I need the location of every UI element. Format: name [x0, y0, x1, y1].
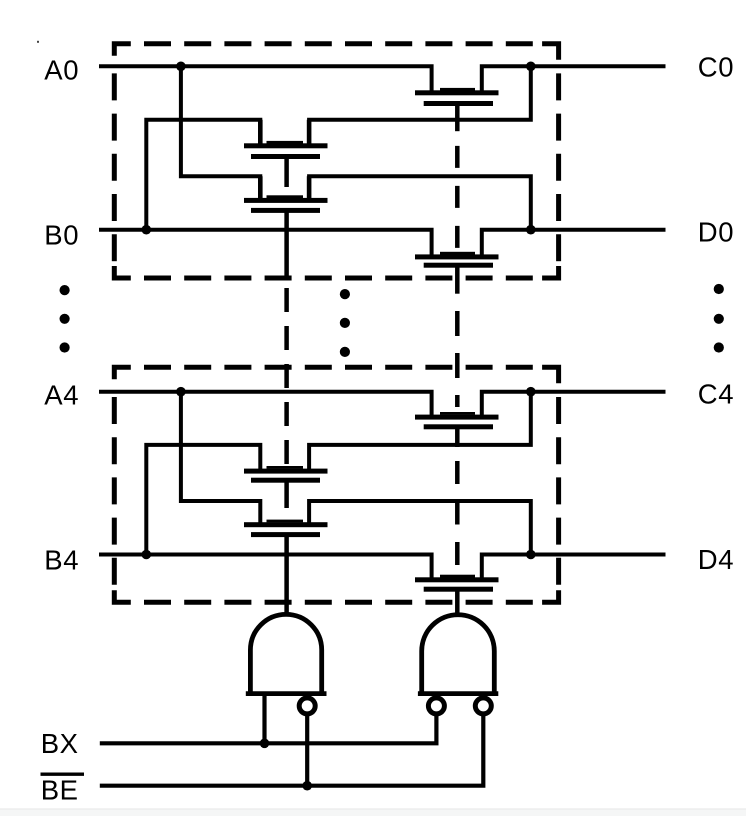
dashed box 1 (bit 0 cell) bottom edge	[131, 276, 542, 281]
gate line of Q6/Q7 and U1 output stub	[284, 480, 289, 614]
node BE junction	[302, 781, 312, 791]
wire C0 line	[482, 66, 666, 92]
svg-text:BE: BE	[41, 775, 79, 806]
svg-text:A4: A4	[44, 379, 79, 410]
inverting bubble U2 input A	[428, 698, 444, 714]
wire B0 line	[99, 230, 432, 256]
overline of BE	[41, 773, 85, 776]
svg-text:D0: D0	[698, 216, 734, 247]
inverting bubble U2 input B	[475, 698, 491, 714]
AND gate U1 (left, output drives cross control)	[246, 614, 327, 695]
gate line dashes Q5 to Q8	[455, 461, 460, 577]
transistor Q5 (A4-C4 pass)	[415, 412, 499, 429]
svg-text:BX: BX	[41, 728, 79, 759]
wire Q7 to D4 node (box 2)	[309, 501, 531, 555]
node BX junction	[260, 739, 270, 749]
bottom page strip	[0, 809, 746, 816]
dashed box 1 (bit 0 cell) top edge	[131, 41, 542, 46]
gate line of Q5	[455, 427, 460, 447]
wire U1 bubble input to BE	[305, 714, 309, 786]
wire B4 to Q6 (cross wire upper, box 2)	[146, 445, 260, 555]
dashed box 1 (bit 0 cell) left edge	[112, 60, 117, 261]
node D0 junction	[526, 225, 536, 235]
transistor Q2 (B0-C0 pass)	[244, 120, 328, 159]
transistor Q1 (A0-C0 pass)	[415, 88, 499, 106]
svg-text:B4: B4	[44, 545, 79, 576]
wire Q3 to D0 node (box 1)	[309, 176, 531, 230]
wire Q6 to C4 node (box 2)	[309, 392, 531, 470]
wire BE line	[100, 714, 484, 786]
svg-text:A0: A0	[44, 55, 79, 86]
wire C4 line	[482, 392, 666, 416]
svg-text:D4: D4	[698, 544, 734, 575]
transistor Q3 (A0-D0 pass)	[244, 176, 328, 213]
wire A4 line	[99, 392, 432, 416]
wire B0 to Q2 (cross wire upper, box 1)	[146, 120, 260, 230]
wire BX line	[100, 714, 437, 743]
wire D4 line	[482, 555, 666, 579]
node C4 junction	[526, 387, 536, 397]
wire Q2 to C0 node (box 1)	[309, 66, 531, 145]
dashed box 1 (bit 0 cell) right edge	[556, 60, 561, 261]
node B4 junction	[142, 550, 152, 560]
dashed box 1 (bit 0 cell) corner dashes	[114, 44, 558, 278]
transistor Q7 (A4-D4 pass)	[244, 520, 328, 538]
AND gate U2 (right, output drives straight control)	[418, 615, 498, 696]
gate line dashes between box1 and box2 (straight control net)	[455, 311, 460, 407]
dashed box 2 (bit 4 cell) right edge	[556, 384, 561, 586]
dashed box 2 (bit 4 cell) left edge	[112, 384, 117, 586]
node A4 junction	[176, 387, 186, 397]
svg-text:C0: C0	[698, 52, 734, 83]
wire U1 plain input to BX	[262, 696, 266, 743]
node C0 junction	[526, 62, 536, 72]
node B0 junction	[142, 225, 152, 235]
gate line dashes between box1 and box2 (cross control net)	[284, 288, 289, 466]
ellipsis dots right	[714, 284, 724, 353]
ellipsis dots left	[60, 285, 70, 353]
transistor Q6 (B4-C4 pass)	[244, 466, 328, 483]
svg-text:B0: B0	[44, 219, 79, 250]
node A0 junction	[176, 62, 186, 72]
gate line dashes Q1 to Q4	[455, 146, 460, 262]
node D4 junction	[526, 550, 536, 560]
gate line of Q2/Q3 (cross control net, box 1)	[284, 156, 289, 280]
dashed box 2 (bit 4 cell) bottom edge	[131, 600, 542, 605]
wire A0 line	[99, 66, 432, 92]
ellipsis dots middle	[340, 289, 350, 357]
inverting bubble U1 input B	[299, 698, 315, 714]
transistor Q8 (B4-D4 pass)	[415, 575, 499, 592]
gate line of Q1 (straight control net, box 1)	[455, 104, 460, 131]
gate line of Q4 with stub below box 1	[455, 265, 460, 294]
wire A0 to Q3 (cross wire lower, box 1)	[181, 66, 260, 199]
gate line of Q8 and U2 output stub	[455, 589, 460, 615]
wire A4 to Q7 (cross wire lower, box 2)	[181, 392, 260, 524]
wire D0 line	[482, 230, 666, 256]
speck artifact top-left	[37, 41, 39, 43]
transistor Q4 (B0-D0 pass)	[415, 252, 499, 268]
dashed box 2 (bit 4 cell) corner dashes	[114, 367, 558, 602]
svg-text:C4: C4	[698, 378, 734, 409]
wire B4 line	[99, 555, 432, 579]
dashed box 2 (bit 4 cell) top edge	[131, 365, 542, 370]
